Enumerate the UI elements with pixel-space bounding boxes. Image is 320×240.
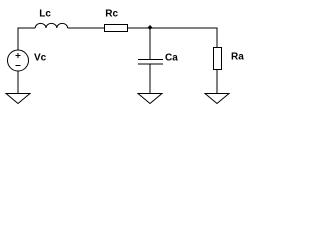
svg-text:Lc: Lc (39, 9, 51, 20)
ground under source (6, 94, 30, 104)
svg-text:Vc: Vc (34, 52, 47, 63)
wire Ra bottom to ground (216, 70, 218, 94)
svg-text:Ra: Ra (231, 51, 244, 62)
capacitor C1 (Ca) plates (138, 60, 163, 65)
node junction dot (148, 25, 153, 30)
plus sign (16, 53, 21, 58)
wire inductor to resistor Rc (68, 27, 105, 29)
voltage source V1 (Vc) circle (8, 50, 29, 71)
svg-text:Ca: Ca (165, 52, 178, 63)
wire source bottom to ground (17, 71, 19, 94)
ground under Ra (205, 94, 229, 104)
wire Rc to node (128, 27, 151, 29)
wire top-left from source up and right to inductor (18, 28, 35, 50)
ground under capacitor (138, 94, 162, 104)
resistor R2 (Ra) (214, 48, 222, 70)
wire capacitor to ground (149, 64, 151, 94)
resistor R1 (Rc) (105, 25, 128, 32)
minus sign (16, 65, 21, 67)
wire node to right corner and down to Ra (150, 28, 217, 48)
svg-text:Rc: Rc (105, 9, 118, 20)
wire node down to capacitor (149, 28, 151, 60)
inductor L1 (Lc) (35, 23, 67, 28)
